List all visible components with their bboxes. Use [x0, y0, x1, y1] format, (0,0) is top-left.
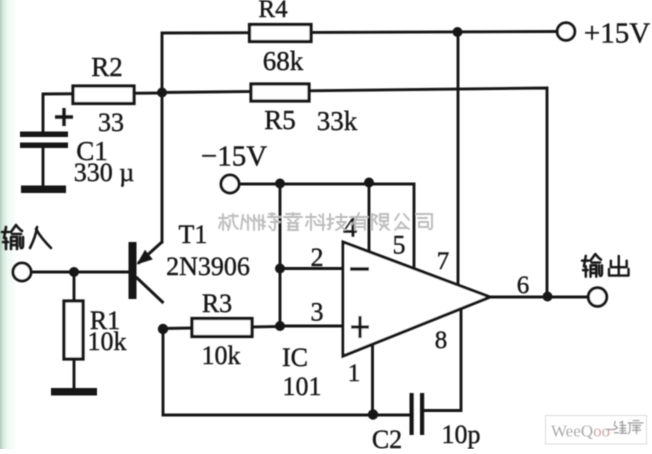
watermark weeqoo box — [546, 416, 647, 445]
wire: collector node to R3 — [163, 327, 280, 329]
ground at R1 — [51, 388, 97, 396]
transistor Q1 emitter — [138, 242, 163, 264]
svg-text:2: 2 — [311, 243, 324, 272]
svg-text:1: 1 — [348, 360, 361, 387]
terminal: output — [588, 288, 606, 306]
resistor R5 body — [251, 84, 309, 101]
svg-text:33: 33 — [98, 108, 124, 137]
svg-text:C2: C2 — [372, 425, 402, 449]
wire: pin 3 lead — [280, 325, 343, 328]
wire: pin 2 lead — [280, 267, 343, 270]
watermark hangzhou jiangrui keji youxian gongsi — [219, 213, 432, 230]
svg-text:101: 101 — [283, 372, 322, 401]
terminal: +15V — [557, 23, 575, 41]
transistor Q1 base bar — [129, 242, 137, 299]
svg-text:10p: 10p — [442, 420, 481, 449]
resistor R2 body — [73, 86, 134, 104]
svg-text:−15V: −15V — [201, 141, 267, 173]
capacitor C2 left plate — [410, 393, 414, 435]
wire: R1 bottom lead to ground — [73, 358, 76, 391]
capacitor C2 right plate — [420, 393, 424, 435]
label shu-chu (output) — [582, 254, 629, 277]
terminal: input — [13, 263, 31, 281]
svg-text:5: 5 — [393, 231, 406, 260]
label shu-ru (input) — [2, 225, 51, 249]
node: -15V rail pin4 junction — [364, 178, 374, 188]
op-amp inverting minus mark — [350, 267, 369, 270]
capacitor C1 top plate — [20, 132, 68, 138]
node: pin 3 junction — [275, 321, 285, 331]
wire: pin 8 drop to C2 — [424, 309, 461, 411]
svg-text:R2: R2 — [91, 52, 123, 82]
node: R2/R5/rail junction — [157, 88, 167, 98]
op-amp U1 triangle — [343, 242, 490, 356]
wire: drop to pin 4 — [368, 182, 371, 251]
svg-text:7: 7 — [437, 248, 450, 275]
svg-text:+15V: +15V — [584, 18, 650, 50]
wire: R5 feedback rail to output — [162, 88, 547, 297]
resistor R3 body — [192, 319, 252, 337]
watermark dash — [606, 429, 614, 431]
op-amp non-inverting plus mark — [351, 316, 369, 338]
node: +15V rail / pin7 junction — [453, 27, 463, 37]
transistor Q1 collector — [136, 277, 164, 303]
wire: vertical net joining pins 2 and 3 — [279, 183, 282, 326]
node: collector / R3 junction — [158, 324, 168, 334]
node: pin 2 junction — [275, 264, 285, 274]
resistor R4 body — [250, 25, 312, 42]
terminal: -15V — [221, 175, 239, 193]
wire: -15V rail with drop to pin 5 — [239, 184, 414, 267]
svg-text:T1: T1 — [179, 220, 208, 249]
watermark weiku glyphs — [614, 421, 643, 434]
wire: collector down to bottom rail — [163, 329, 410, 415]
svg-text:IC: IC — [282, 343, 308, 372]
svg-text:8: 8 — [435, 327, 448, 354]
wire: R1 top lead — [73, 272, 76, 302]
transistor Q1 emitter arrow — [137, 250, 153, 265]
node: bottom rail / pin1 junction — [368, 409, 378, 419]
capacitor C1 plus sign — [55, 108, 73, 126]
node: -15V rail first junction — [275, 179, 285, 189]
svg-text:2N3906: 2N3906 — [166, 252, 250, 281]
svg-text:6: 6 — [517, 272, 530, 299]
svg-text:330 µ: 330 µ — [74, 158, 135, 187]
svg-text:68k: 68k — [263, 46, 304, 76]
resistor R1 body — [64, 301, 83, 359]
svg-text:WeeQoo: WeeQoo — [551, 422, 610, 441]
wire: top rail from node A down-left corner to +15V — [162, 32, 557, 243]
svg-text:33k: 33k — [317, 106, 358, 136]
svg-text:10k: 10k — [202, 341, 241, 370]
wire: input lead to base — [31, 271, 130, 274]
wire: pin 1 drop — [371, 345, 374, 416]
capacitor C1 bottom plate — [20, 143, 68, 149]
node: output junction — [543, 292, 553, 302]
svg-text:10k: 10k — [88, 327, 127, 356]
svg-text:R5: R5 — [264, 105, 296, 135]
svg-text:R4: R4 — [258, 0, 288, 23]
wire: +15V drop to pin 7 — [457, 32, 460, 285]
left scan edge band — [0, 0, 17, 449]
wire: R2 left lead down to C1 — [43, 93, 162, 133]
svg-text:R3: R3 — [202, 289, 232, 318]
svg-text:3: 3 — [311, 298, 324, 327]
wire: output lead — [490, 296, 588, 299]
ground at C1 — [21, 186, 66, 194]
node: input / R1 junction — [69, 267, 79, 277]
wire: C1 bottom lead to ground — [42, 147, 45, 189]
